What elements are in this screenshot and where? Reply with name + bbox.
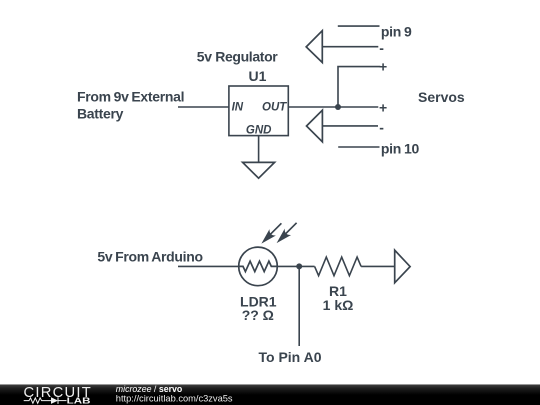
- svg-text:-: -: [379, 120, 384, 136]
- svg-text:microzee / servo: microzee / servo: [116, 384, 183, 394]
- node: junction to A0: [296, 263, 302, 269]
- wire: LDR1 to node A0: [277, 265, 314, 267]
- svg-text:Battery: Battery: [77, 105, 124, 121]
- wire: pin 9 stub: [338, 25, 380, 27]
- svg-text:From 9v External: From 9v External: [77, 88, 184, 104]
- terminal: output (triangle): [395, 250, 410, 283]
- wire: pin 10 stub: [338, 146, 379, 148]
- svg-text:To Pin A0: To Pin A0: [259, 349, 322, 365]
- svg-text:-: -: [379, 40, 384, 56]
- wire: L-shaped branch up to servo1 +: [338, 67, 380, 107]
- svg-text:http://circuitlab.com/c3zva5s: http://circuitlab.com/c3zva5s: [116, 394, 233, 404]
- wire: battery input to U1 IN: [178, 106, 229, 108]
- ground: [243, 136, 275, 179]
- wire: servo 1 minus: [322, 46, 378, 48]
- svg-text:5v From Arduino: 5v From Arduino: [97, 248, 202, 264]
- wire: node down to pin A0: [298, 266, 300, 346]
- svg-text:?? Ω: ?? Ω: [242, 307, 274, 323]
- wire: U1 OUT to servo + rail: [288, 106, 378, 108]
- svg-text:5v Regulator: 5v Regulator: [197, 48, 279, 64]
- svg-text:+: +: [379, 100, 387, 116]
- node: junction on servo + rail: [335, 104, 341, 110]
- svg-text:LAB: LAB: [67, 395, 91, 405]
- resistor R1: [315, 257, 362, 276]
- pin labels of U1: [232, 101, 288, 136]
- svg-text:U1: U1: [249, 68, 267, 84]
- svg-text:GND: GND: [246, 125, 272, 137]
- svg-text:pin 9: pin 9: [381, 23, 412, 39]
- terminal: servo 2 signal (triangle): [307, 110, 323, 142]
- svg-text:OUT: OUT: [262, 101, 287, 113]
- wire: R1 to output terminal: [361, 265, 395, 267]
- regulator U1 body: [229, 86, 288, 136]
- photoresistor LDR1: [239, 223, 297, 286]
- wire: servo 2 minus: [322, 125, 378, 127]
- terminal: servo 1 signal (triangle): [306, 31, 322, 63]
- svg-text:IN: IN: [232, 101, 244, 113]
- svg-text:1 kΩ: 1 kΩ: [323, 297, 354, 313]
- svg-text:+: +: [379, 59, 387, 75]
- wire: 5v from arduino to LDR1: [178, 265, 239, 267]
- footer logo CIRCUIT LAB: [24, 385, 93, 405]
- svg-text:Servos: Servos: [418, 89, 465, 105]
- footer bar: [0, 384, 540, 385]
- svg-text:pin 10: pin 10: [381, 141, 420, 157]
